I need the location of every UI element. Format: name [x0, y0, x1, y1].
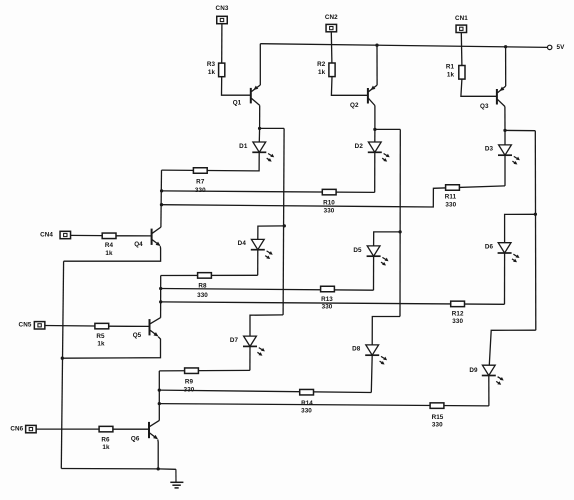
wire: [504, 253, 506, 304]
wire row2 bus A: [161, 289, 374, 291]
svg-text:R1: R1: [446, 64, 455, 71]
connector CN2: [325, 14, 338, 32]
wire: [372, 317, 400, 345]
wire: [64, 246, 161, 261]
svg-text:R15: R15: [432, 414, 444, 421]
svg-text:R14: R14: [301, 400, 313, 407]
wire: [460, 33, 463, 66]
node row1-B junction: [160, 203, 163, 206]
svg-text:330: 330: [322, 304, 333, 311]
svg-text:330: 330: [197, 292, 208, 299]
wire: [258, 226, 285, 240]
wire: [505, 47, 507, 86]
wire: [249, 346, 251, 370]
wire: [375, 128, 400, 130]
svg-text:CN3: CN3: [216, 5, 229, 12]
connector CN1: [455, 15, 468, 32]
resistor R6: [99, 426, 113, 451]
wire: [374, 129, 376, 142]
resistor R15: [430, 403, 444, 429]
wire: [504, 130, 506, 145]
svg-text:D9: D9: [469, 367, 478, 374]
wire: [283, 128, 284, 315]
wire: [157, 440, 159, 469]
wire: [36, 428, 99, 430]
wire: [250, 315, 283, 336]
resistor R14: [300, 389, 314, 414]
svg-text:1k: 1k: [208, 69, 216, 76]
svg-text:D3: D3: [485, 146, 494, 153]
svg-text:CN5: CN5: [19, 322, 32, 329]
connector CN5: [19, 322, 45, 330]
wire row3 bus A: [159, 390, 371, 392]
svg-text:1k: 1k: [318, 69, 326, 76]
wire: [61, 468, 176, 471]
wire: [461, 79, 497, 96]
svg-text:CN4: CN4: [40, 232, 53, 239]
wire: [504, 107, 506, 131]
svg-text:R11: R11: [445, 193, 457, 200]
wire: [331, 77, 368, 96]
svg-text:330: 330: [452, 318, 463, 325]
node Q2 collector: [373, 128, 376, 131]
resistor R13: [321, 286, 335, 310]
resistor R8: [197, 273, 211, 299]
LED D4: [238, 239, 273, 259]
wire: [258, 128, 260, 142]
node Q3 collector: [503, 129, 506, 132]
wire: [374, 106, 376, 130]
node rail-Q3 junction: [504, 45, 507, 48]
wire: [370, 355, 373, 392]
node row3-B junction: [158, 402, 161, 405]
wire: [158, 371, 160, 421]
LED D7: [230, 336, 265, 356]
node row1-A junction: [160, 189, 163, 192]
transistor Q6: [131, 420, 159, 442]
node left bus-Q5 junction: [61, 357, 64, 360]
svg-text:330: 330: [432, 422, 443, 429]
svg-text:R6: R6: [101, 437, 110, 444]
svg-text:Q5: Q5: [133, 332, 142, 339]
resistor R10: [322, 189, 336, 214]
transistor Q4: [134, 227, 161, 248]
svg-text:R4: R4: [105, 242, 114, 249]
svg-text:CN6: CN6: [10, 426, 23, 433]
wire: [160, 170, 163, 227]
resistor R1: [446, 64, 465, 80]
svg-text:R7: R7: [196, 179, 205, 186]
transistor Q1: [233, 85, 261, 106]
wire: [162, 152, 260, 171]
svg-text:Q4: Q4: [134, 241, 143, 248]
resistor R11: [445, 185, 460, 209]
connector CN4: [40, 231, 70, 238]
resistor R7: [193, 168, 207, 194]
wire: [505, 129, 535, 131]
wire: [259, 44, 261, 85]
ground: [170, 469, 183, 488]
svg-text:R3: R3: [207, 61, 216, 68]
wire: [70, 234, 102, 236]
svg-text:Q1: Q1: [233, 99, 242, 106]
svg-text:R5: R5: [96, 333, 105, 340]
svg-text:Q3: Q3: [480, 103, 489, 110]
LED D6: [485, 243, 520, 263]
wire: [330, 32, 333, 63]
svg-text:Q2: Q2: [350, 102, 359, 109]
svg-text:D7: D7: [230, 337, 239, 344]
wire: [109, 325, 150, 327]
LED D8: [352, 345, 387, 365]
wire: [62, 337, 160, 359]
wire: [376, 45, 378, 85]
wire 5V supply rail: [260, 44, 547, 48]
wire: [44, 325, 95, 328]
svg-text:1k: 1k: [102, 444, 110, 451]
svg-text:330: 330: [445, 201, 456, 208]
wire: [160, 276, 162, 318]
wire row1 bus A: [162, 191, 375, 193]
LED D1: [239, 142, 274, 162]
resistor R3: [207, 61, 225, 77]
wire: [373, 256, 375, 290]
node row3-A junction: [158, 388, 161, 391]
wire: [489, 330, 536, 365]
svg-text:D1: D1: [239, 143, 248, 150]
wire: [504, 155, 506, 186]
wire: [399, 129, 401, 316]
svg-text:R13: R13: [321, 296, 333, 303]
LED D5: [353, 246, 388, 266]
node column2-D5 junction: [398, 230, 401, 233]
resistor R4: [102, 233, 116, 257]
node ground junction: [157, 467, 160, 470]
transistor Q3: [480, 86, 506, 110]
wire: [374, 232, 401, 246]
node Q1 collector: [258, 127, 261, 130]
wire: [257, 250, 259, 276]
svg-text:Q6: Q6: [131, 436, 140, 443]
svg-text:D6: D6: [485, 244, 494, 251]
wire row2 bus B: [161, 302, 505, 304]
svg-text:1k: 1k: [97, 341, 105, 348]
wire: [488, 376, 490, 406]
wire: [505, 214, 536, 242]
svg-text:D8: D8: [352, 346, 361, 353]
resistor R9 wire: [159, 369, 250, 372]
svg-text:330: 330: [301, 408, 312, 415]
transistor Q5: [133, 318, 161, 340]
wire left emitter bus: [61, 261, 63, 468]
resistor R9: [184, 368, 199, 394]
svg-text:D5: D5: [353, 247, 362, 254]
resistor R12: [451, 301, 465, 325]
wire row1 bus B: [162, 186, 506, 207]
wire: [113, 428, 149, 430]
node rail-Q2 junction: [375, 44, 378, 47]
svg-text:R12: R12: [452, 311, 464, 318]
svg-text:5V: 5V: [557, 44, 566, 51]
LED D3: [485, 145, 520, 165]
wire row3 bus B: [159, 404, 489, 406]
wire: [116, 235, 152, 237]
connector CN3: [216, 5, 229, 24]
connector CN6: [10, 425, 36, 432]
svg-text:D4: D4: [238, 240, 247, 247]
resistor R8 wire: [161, 274, 258, 276]
wire: [221, 24, 223, 64]
node column1-D4 junction: [283, 224, 286, 227]
svg-text:CN2: CN2: [325, 14, 338, 21]
resistor R2: [317, 61, 335, 77]
resistor R5: [95, 323, 109, 347]
svg-text:R2: R2: [317, 61, 326, 68]
svg-text:1k: 1k: [447, 72, 455, 79]
node row2-B junction: [159, 300, 162, 303]
svg-text:D2: D2: [355, 143, 364, 150]
node row2-A junction: [159, 287, 162, 290]
svg-text:330: 330: [324, 208, 335, 215]
wire: [534, 131, 537, 331]
wire: [374, 152, 376, 192]
transistor Q2: [350, 85, 377, 109]
power terminal 5V: [548, 44, 566, 51]
svg-text:CN1: CN1: [455, 15, 468, 22]
svg-text:1k: 1k: [105, 250, 113, 257]
svg-text:R9: R9: [185, 379, 194, 386]
wire: [259, 105, 261, 128]
node column3-D6 junction: [534, 213, 537, 216]
LED D2: [355, 142, 390, 162]
LED D9: [469, 365, 503, 385]
wire: [260, 127, 285, 129]
wire: [222, 77, 251, 96]
